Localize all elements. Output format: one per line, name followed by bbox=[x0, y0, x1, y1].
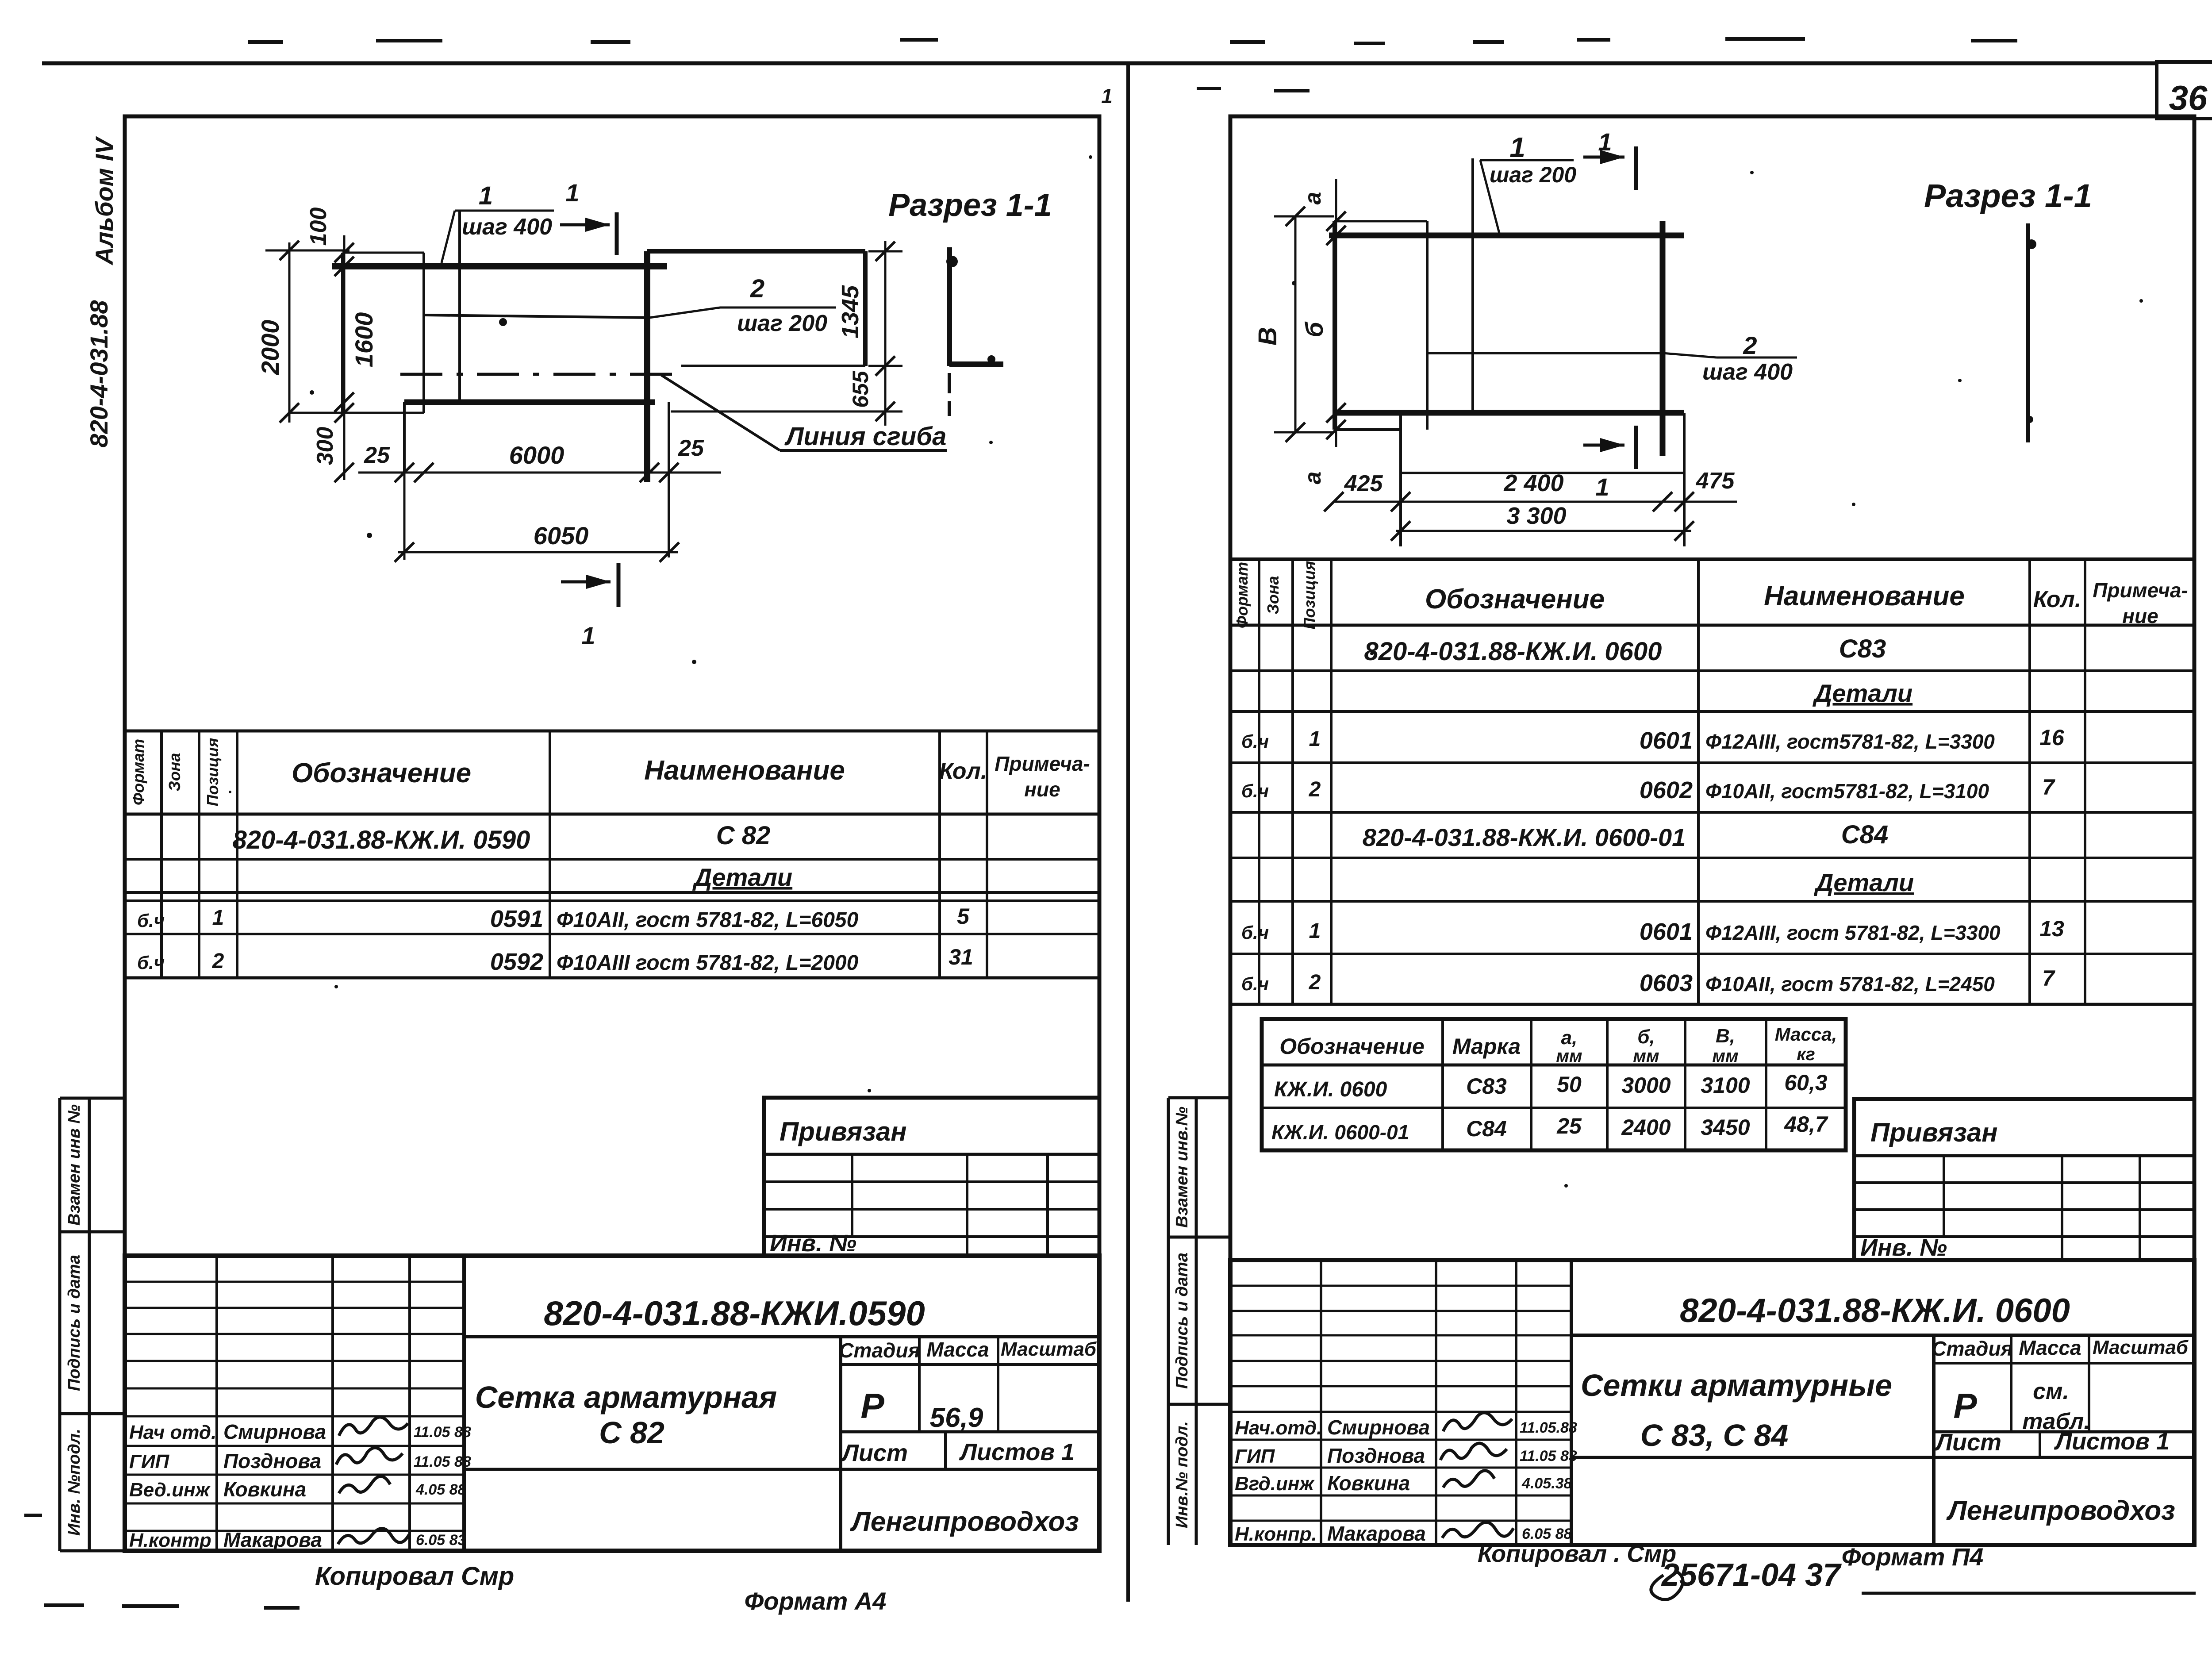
svg-text:Масштаб: Масштаб bbox=[1001, 1338, 1097, 1360]
svg-text:2: 2 bbox=[1309, 778, 1321, 801]
section arrow top right sheet bbox=[1583, 156, 1624, 159]
svg-text:шаг 400: шаг 400 bbox=[462, 214, 552, 240]
left flap rectangle bbox=[1334, 220, 1427, 223]
fold centre line (dash-dot) bbox=[400, 373, 684, 376]
right spec table bbox=[1230, 557, 2194, 561]
svg-text:Сетка арматурная: Сетка арматурная bbox=[475, 1380, 777, 1414]
svg-text:475: 475 bbox=[1696, 468, 1735, 494]
svg-text:Альбом IV: Альбом IV bbox=[90, 136, 118, 266]
svg-text:мм: мм bbox=[1712, 1046, 1738, 1066]
svg-text:Кол.: Кол. bbox=[2033, 587, 2081, 612]
mesh top edge bar bbox=[332, 263, 667, 269]
svg-text:6.05 83: 6.05 83 bbox=[416, 1532, 466, 1549]
right margin stamp block bbox=[1167, 1098, 1170, 1545]
svg-text:25671-04 37: 25671-04 37 bbox=[1661, 1557, 1842, 1593]
mesh right edge bar bbox=[1660, 221, 1666, 456]
svg-text:4.05.38: 4.05.38 bbox=[1521, 1475, 1572, 1492]
svg-text:1: 1 bbox=[1595, 473, 1609, 501]
svg-text:25: 25 bbox=[1556, 1114, 1582, 1138]
svg-text:11.05.88: 11.05.88 bbox=[1520, 1419, 1577, 1436]
svg-text:Листов 1: Листов 1 bbox=[959, 1439, 1075, 1465]
svg-text:60,3: 60,3 bbox=[1784, 1070, 1828, 1095]
svg-text:Нач отд.: Нач отд. bbox=[129, 1422, 216, 1443]
leader bar2: shag 200 bbox=[649, 307, 720, 318]
svg-text:Лист: Лист bbox=[841, 1440, 908, 1466]
svg-text:С 83, С 84: С 83, С 84 bbox=[1640, 1418, 1789, 1453]
mesh top edge bar bbox=[1329, 233, 1684, 238]
svg-text:300: 300 bbox=[312, 427, 338, 465]
svg-text:Инв. №подл.: Инв. №подл. bbox=[65, 1429, 84, 1536]
svg-text:1: 1 bbox=[581, 622, 595, 650]
svg-text:Разрез 1-1: Разрез 1-1 bbox=[888, 188, 1052, 223]
svg-text:ГИП: ГИП bbox=[129, 1451, 170, 1472]
top flap rectangle bbox=[342, 252, 424, 254]
svg-text:820-4-031.88-КЖИ.0590: 820-4-031.88-КЖИ.0590 bbox=[544, 1294, 925, 1333]
leader bar1: shag 400 bbox=[455, 210, 554, 212]
svg-text:Подпись и дата: Подпись и дата bbox=[1173, 1253, 1191, 1389]
svg-text:820-4-031.88: 820-4-031.88 bbox=[85, 300, 113, 448]
parameters table C83/C84 bbox=[1262, 1019, 1846, 1150]
scan noise dashes top bbox=[248, 40, 283, 44]
svg-text:С83: С83 bbox=[1839, 634, 1886, 663]
svg-text:В,: В, bbox=[1716, 1025, 1735, 1047]
scan speckles bbox=[367, 533, 372, 538]
svg-text:Смирнова: Смирнова bbox=[223, 1420, 326, 1443]
svg-text:шаг 200: шаг 200 bbox=[737, 311, 827, 336]
svg-text:В: В bbox=[1253, 327, 1282, 346]
svg-text:Р: Р bbox=[1953, 1386, 1977, 1426]
mesh right edge bar bbox=[644, 251, 650, 482]
svg-text:Обозначение: Обозначение bbox=[292, 758, 471, 788]
svg-text:Ф12АIII, гост 5781-82, L=3300: Ф12АIII, гост 5781-82, L=3300 bbox=[1705, 921, 2001, 944]
svg-text:Позднова: Позднова bbox=[223, 1449, 321, 1472]
svg-text:б.ч: б.ч bbox=[1241, 780, 1269, 801]
svg-text:0601: 0601 bbox=[1640, 727, 1693, 754]
svg-text:Копировал Смр: Копировал Смр bbox=[315, 1562, 514, 1591]
svg-text:Примеча-: Примеча- bbox=[995, 752, 1090, 775]
dimension 1345/655 bbox=[884, 241, 887, 426]
svg-text:Разрез 1-1: Разрез 1-1 bbox=[1924, 177, 2092, 214]
svg-text:100: 100 bbox=[306, 208, 331, 246]
svg-text:Зона: Зона bbox=[1264, 576, 1282, 615]
svg-text:а,: а, bbox=[1561, 1027, 1578, 1049]
dimension 6000 with 25/25 bbox=[358, 472, 721, 474]
svg-text:2: 2 bbox=[212, 949, 224, 973]
svg-text:Взамен инв.№: Взамен инв.№ bbox=[1173, 1107, 1191, 1228]
svg-text:36: 36 bbox=[2169, 78, 2208, 117]
svg-text:Ф10АII, гост 5781-82, L=6050: Ф10АII, гост 5781-82, L=6050 bbox=[557, 908, 859, 932]
svg-text:Стадия: Стадия bbox=[1932, 1337, 2012, 1360]
svg-text:Ф10АII, гост 5781-82, L=2450: Ф10АII, гост 5781-82, L=2450 bbox=[1705, 972, 1995, 996]
bottom flap rectangle bbox=[403, 402, 406, 473]
svg-text:а: а bbox=[1300, 472, 1326, 484]
svg-text:Н.контр: Н.контр bbox=[129, 1530, 211, 1551]
svg-text:Привязан: Привязан bbox=[780, 1117, 906, 1146]
svg-text:мм: мм bbox=[1556, 1046, 1582, 1066]
svg-text:6050: 6050 bbox=[534, 522, 589, 550]
svg-text:655: 655 bbox=[848, 370, 873, 408]
svg-text:Вгд.инж: Вгд.инж bbox=[1235, 1473, 1315, 1495]
svg-text:Ковкина: Ковкина bbox=[1327, 1472, 1410, 1495]
svg-text:3 300: 3 300 bbox=[1506, 503, 1566, 529]
svg-text:Копировал . Смр: Копировал . Смр bbox=[1478, 1541, 1676, 1567]
svg-text:16: 16 bbox=[2039, 725, 2065, 750]
svg-text:Ковкина: Ковкина bbox=[223, 1478, 306, 1501]
svg-text:48,7: 48,7 bbox=[1784, 1112, 1828, 1137]
svg-text:Ленгипроводхоз: Ленгипроводхоз bbox=[1946, 1495, 2175, 1526]
svg-text:0592: 0592 bbox=[490, 949, 543, 975]
right sheet border bbox=[1230, 116, 2194, 1545]
svg-text:Детали: Детали bbox=[1813, 679, 1912, 707]
svg-text:2 400: 2 400 bbox=[1503, 470, 1563, 496]
svg-text:7: 7 bbox=[2042, 775, 2055, 799]
svg-text:1: 1 bbox=[479, 181, 493, 210]
bar 2 horizontal wire bbox=[424, 315, 649, 318]
svg-text:Макарова: Макарова bbox=[1327, 1522, 1426, 1545]
svg-text:Обозначение: Обозначение bbox=[1279, 1034, 1425, 1059]
svg-text:25: 25 bbox=[364, 442, 390, 468]
svg-text:Формат: Формат bbox=[129, 739, 147, 805]
svg-text:Лист: Лист bbox=[1934, 1429, 2001, 1456]
svg-text:б: б bbox=[1300, 321, 1328, 337]
leader bar1: shag 200 bbox=[1480, 159, 1574, 161]
svg-text:б,: б, bbox=[1637, 1026, 1655, 1048]
right privyazan stamp bbox=[1854, 1099, 2194, 1260]
svg-text:11.05 88: 11.05 88 bbox=[414, 1453, 471, 1470]
svg-text:31: 31 bbox=[949, 945, 973, 969]
svg-text:Листов 1: Листов 1 bbox=[2054, 1428, 2170, 1455]
left margin stamp block bbox=[58, 1098, 61, 1551]
left spec table bbox=[126, 730, 1098, 733]
svg-text:б.ч: б.ч bbox=[137, 910, 165, 931]
svg-text:13: 13 bbox=[2039, 916, 2064, 941]
svg-text:Инв. №: Инв. № bbox=[1860, 1234, 1947, 1261]
dimension chain a/b/a bbox=[1335, 179, 1337, 447]
svg-text:Примеча-: Примеча- bbox=[2093, 579, 2188, 602]
svg-text:Позиция: Позиция bbox=[204, 738, 222, 807]
svg-text:Макарова: Макарова bbox=[223, 1528, 322, 1551]
svg-text:б.ч: б.ч bbox=[1241, 922, 1269, 943]
svg-text:820-4-031.88-КЖ.И. 0600: 820-4-031.88-КЖ.И. 0600 bbox=[1680, 1292, 2070, 1330]
svg-text:С 82: С 82 bbox=[599, 1415, 664, 1450]
svg-text:кг: кг bbox=[1797, 1045, 1815, 1064]
svg-text:1: 1 bbox=[1598, 128, 1612, 156]
svg-text:11.05 83: 11.05 83 bbox=[1520, 1448, 1577, 1464]
svg-text:Наименование: Наименование bbox=[644, 755, 845, 786]
svg-text:Ф10АII, гост5781-82, L=3100: Ф10АII, гост5781-82, L=3100 bbox=[1705, 780, 1989, 803]
bar 2 horizontal wire bbox=[1427, 352, 1663, 354]
svg-text:б.ч: б.ч bbox=[1241, 731, 1269, 752]
svg-text:Формат П4: Формат П4 bbox=[1842, 1543, 1984, 1571]
dimension 3300 bbox=[1396, 530, 1691, 532]
svg-text:Марка: Марка bbox=[1452, 1034, 1521, 1059]
svg-text:0601: 0601 bbox=[1640, 919, 1693, 945]
svg-text:мм: мм bbox=[1633, 1046, 1659, 1066]
svg-text:6.05 88: 6.05 88 bbox=[1522, 1526, 1572, 1542]
svg-text:3000: 3000 bbox=[1621, 1073, 1671, 1098]
svg-text:2: 2 bbox=[1309, 971, 1321, 994]
dimension 425/2400/475 bbox=[1334, 501, 1737, 503]
svg-text:Ф12АIII, гост5781-82, L=3300: Ф12АIII, гост5781-82, L=3300 bbox=[1705, 730, 1995, 753]
left sheet border bbox=[125, 116, 1099, 1551]
dimension V bbox=[1294, 216, 1297, 432]
svg-text:Инв. №: Инв. № bbox=[770, 1230, 856, 1257]
svg-text:Кол.: Кол. bbox=[939, 758, 987, 784]
right title block bbox=[1230, 1260, 2194, 1545]
svg-text:3450: 3450 bbox=[1701, 1115, 1750, 1140]
svg-text:Нач.отд.: Нач.отд. bbox=[1235, 1417, 1322, 1439]
svg-text:Детали: Детали bbox=[1814, 869, 1914, 896]
svg-text:Масса: Масса bbox=[926, 1338, 989, 1361]
dimension 2000 bbox=[288, 242, 291, 423]
svg-text:КЖ.И. 0600: КЖ.И. 0600 bbox=[1274, 1078, 1387, 1101]
svg-text:Формат: Формат bbox=[1233, 562, 1251, 628]
top page rule bbox=[42, 61, 2157, 65]
svg-text:50: 50 bbox=[1557, 1072, 1582, 1097]
svg-text:0603: 0603 bbox=[1640, 970, 1693, 996]
svg-text:6000: 6000 bbox=[509, 441, 565, 469]
svg-text:С83: С83 bbox=[1466, 1074, 1507, 1099]
page number box bbox=[2157, 62, 2212, 119]
svg-text:1: 1 bbox=[212, 906, 224, 930]
svg-text:2000: 2000 bbox=[256, 320, 284, 376]
svg-text:ГИП: ГИП bbox=[1235, 1445, 1275, 1467]
svg-text:Позднова: Позднова bbox=[1327, 1444, 1425, 1467]
svg-text:С84: С84 bbox=[1841, 820, 1888, 849]
svg-text:2: 2 bbox=[750, 274, 764, 303]
svg-text:1: 1 bbox=[1509, 131, 1525, 163]
svg-text:Линия сгиба: Линия сгиба bbox=[784, 422, 947, 451]
svg-text:С84: С84 bbox=[1466, 1116, 1507, 1141]
svg-text:820-4-031.88-КЖ.И. 0600: 820-4-031.88-КЖ.И. 0600 bbox=[1364, 637, 1662, 666]
upper-right sheet rectangle bbox=[647, 249, 865, 254]
bar 1 vertical wire bbox=[1471, 158, 1474, 411]
svg-text:Зона: Зона bbox=[165, 753, 184, 792]
svg-text:4.05 88: 4.05 88 bbox=[415, 1481, 466, 1498]
svg-text:3100: 3100 bbox=[1701, 1073, 1750, 1098]
signatures squiggles right bbox=[1443, 1413, 1512, 1431]
svg-text:КЖ.И. 0600-01: КЖ.И. 0600-01 bbox=[1271, 1121, 1409, 1144]
svg-text:шаг 400: шаг 400 bbox=[1702, 359, 1793, 385]
svg-text:5: 5 bbox=[957, 904, 970, 929]
svg-text:б.ч: б.ч bbox=[1241, 973, 1269, 994]
svg-text:ние: ние bbox=[2122, 604, 2158, 627]
signatures squiggles left bbox=[339, 1417, 408, 1436]
svg-text:Стадия: Стадия bbox=[839, 1339, 920, 1362]
svg-text:Ленгипроводхоз: Ленгипроводхоз bbox=[850, 1507, 1079, 1537]
svg-text:Привязан: Привязан bbox=[1870, 1118, 1997, 1147]
svg-text:см.: см. bbox=[2033, 1379, 2069, 1404]
dimension chain 100/1600/300 bbox=[343, 235, 346, 480]
svg-text:1: 1 bbox=[565, 179, 579, 207]
svg-text:Сетки арматурные: Сетки арматурные bbox=[1581, 1368, 1892, 1403]
svg-text:Н.конпр.: Н.конпр. bbox=[1235, 1523, 1317, 1545]
svg-text:2400: 2400 bbox=[1621, 1115, 1671, 1140]
svg-text:Ф10АIII гост 5781-82, L=2000: Ф10АIII гост 5781-82, L=2000 bbox=[557, 951, 859, 975]
svg-text:25: 25 bbox=[678, 435, 704, 461]
fold line leader and label bbox=[661, 375, 780, 450]
svg-text:Масса: Масса bbox=[2019, 1336, 2081, 1359]
svg-text:Вед.инж: Вед.инж bbox=[129, 1479, 211, 1501]
svg-text:56,9: 56,9 bbox=[930, 1403, 983, 1433]
svg-text:Взамен инв №: Взамен инв № bbox=[65, 1104, 84, 1226]
section arrow bottom bbox=[561, 580, 611, 584]
svg-text:11.05 88: 11.05 88 bbox=[414, 1424, 471, 1441]
bar 1 vertical wire bbox=[458, 211, 461, 401]
section arrow bottom right sheet bbox=[1583, 444, 1624, 447]
dimension 6050 bbox=[398, 551, 678, 553]
centre divider between sheets bbox=[1126, 63, 1130, 1602]
bottom flap rectangle bbox=[1399, 413, 1402, 546]
svg-text:Наименование: Наименование bbox=[1764, 581, 1965, 611]
svg-text:425: 425 bbox=[1344, 471, 1383, 496]
mesh bottom edge bar bbox=[404, 400, 655, 405]
svg-text:1345: 1345 bbox=[837, 285, 864, 338]
svg-text:ние: ние bbox=[1024, 778, 1060, 801]
svg-text:а: а bbox=[1300, 192, 1326, 205]
svg-text:1: 1 bbox=[1101, 85, 1113, 108]
svg-text:820-4-031.88-КЖ.И. 0600-01: 820-4-031.88-КЖ.И. 0600-01 bbox=[1363, 823, 1686, 851]
leader bar2: shag 400 bbox=[1663, 353, 1717, 357]
svg-text:Формат А4: Формат А4 bbox=[745, 1587, 887, 1615]
svg-text:Обозначение: Обозначение bbox=[1425, 584, 1605, 615]
stamp swirl bbox=[1651, 1571, 1683, 1599]
left privyazan stamp bbox=[764, 1098, 1099, 1256]
svg-text:Позиция: Позиция bbox=[1300, 561, 1318, 630]
svg-text:Детали: Детали bbox=[692, 863, 792, 891]
svg-text:Масса,: Масса, bbox=[1775, 1024, 1837, 1045]
svg-text:1600: 1600 bbox=[350, 312, 378, 368]
svg-text:0591: 0591 bbox=[490, 906, 543, 932]
svg-text:Масштаб: Масштаб bbox=[2093, 1337, 2189, 1358]
svg-text:7: 7 bbox=[2042, 966, 2055, 991]
svg-text:0602: 0602 bbox=[1640, 777, 1693, 803]
svg-text:1: 1 bbox=[1309, 727, 1321, 751]
svg-text:Смирнова: Смирнова bbox=[1327, 1416, 1430, 1439]
section arrow top bbox=[560, 223, 610, 227]
svg-text:б.ч: б.ч bbox=[137, 952, 165, 973]
svg-text:Инв.№ подл.: Инв.№ подл. bbox=[1173, 1421, 1191, 1528]
scan noise dashes bottom left bbox=[44, 1603, 84, 1607]
svg-text:820-4-031.88-КЖ.И. 0590: 820-4-031.88-КЖ.И. 0590 bbox=[233, 826, 530, 854]
svg-text:2: 2 bbox=[1743, 331, 1757, 359]
svg-text:С 82: С 82 bbox=[716, 821, 771, 850]
svg-text:Р: Р bbox=[860, 1386, 884, 1426]
left title block bbox=[125, 1256, 1099, 1551]
mesh bottom edge bar bbox=[1334, 410, 1684, 416]
svg-text:шаг 200: шаг 200 bbox=[1490, 162, 1576, 187]
svg-text:1: 1 bbox=[1309, 919, 1321, 943]
svg-text:Подпись и дата: Подпись и дата bbox=[65, 1255, 84, 1391]
